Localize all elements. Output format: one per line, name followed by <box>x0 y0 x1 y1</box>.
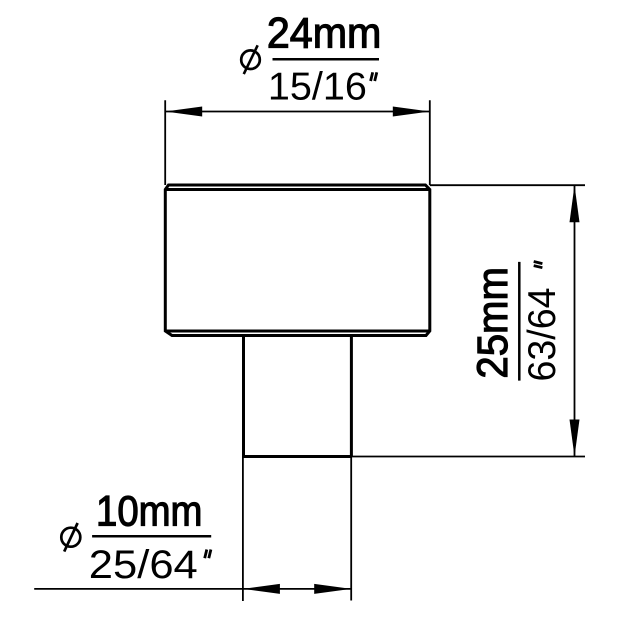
body top chamfer line <box>165 188 430 191</box>
inch marks right label <box>534 262 543 264</box>
body bottom chamfer line <box>165 330 430 333</box>
top dimension right arrowhead <box>393 107 430 117</box>
extension line left (top dimension) <box>164 100 166 185</box>
inch marks top label <box>371 72 373 81</box>
inch marks bottom label <box>205 550 207 559</box>
diameter symbol top label <box>241 50 260 69</box>
fraction bar bottom label <box>92 535 211 538</box>
svg-text:25mm: 25mm <box>469 267 517 379</box>
svg-text:24mm: 24mm <box>267 9 382 57</box>
fraction bar right label <box>518 262 521 381</box>
stem right edge <box>350 336 353 457</box>
bottom dimension line with leader <box>34 588 351 590</box>
diameter symbol bottom label <box>61 528 80 547</box>
extension line left (bottom dimension) <box>242 457 244 602</box>
right dimension top arrowhead <box>570 185 580 222</box>
svg-text:25/64: 25/64 <box>89 543 198 587</box>
stem left edge <box>242 336 245 457</box>
svg-text:10mm: 10mm <box>96 489 203 536</box>
bottom dimension left arrowhead <box>243 584 280 594</box>
right dimension line <box>574 185 576 456</box>
extension line right (top dimension) <box>429 100 431 185</box>
svg-text:15/16: 15/16 <box>268 66 367 109</box>
top dimension line <box>165 111 430 113</box>
fraction bar top label <box>273 58 380 61</box>
right dimension bottom arrowhead <box>570 420 580 457</box>
stem bottom edge <box>243 455 352 458</box>
svg-text:63/64: 63/64 <box>521 288 564 382</box>
extension line upper (right dimension) <box>430 184 585 186</box>
bottom dimension right arrowhead <box>314 584 351 594</box>
extension line lower (right dimension) <box>352 456 586 458</box>
knob body outline <box>165 185 430 336</box>
extension line right (bottom dimension) <box>350 457 352 601</box>
top dimension left arrowhead <box>165 107 202 117</box>
